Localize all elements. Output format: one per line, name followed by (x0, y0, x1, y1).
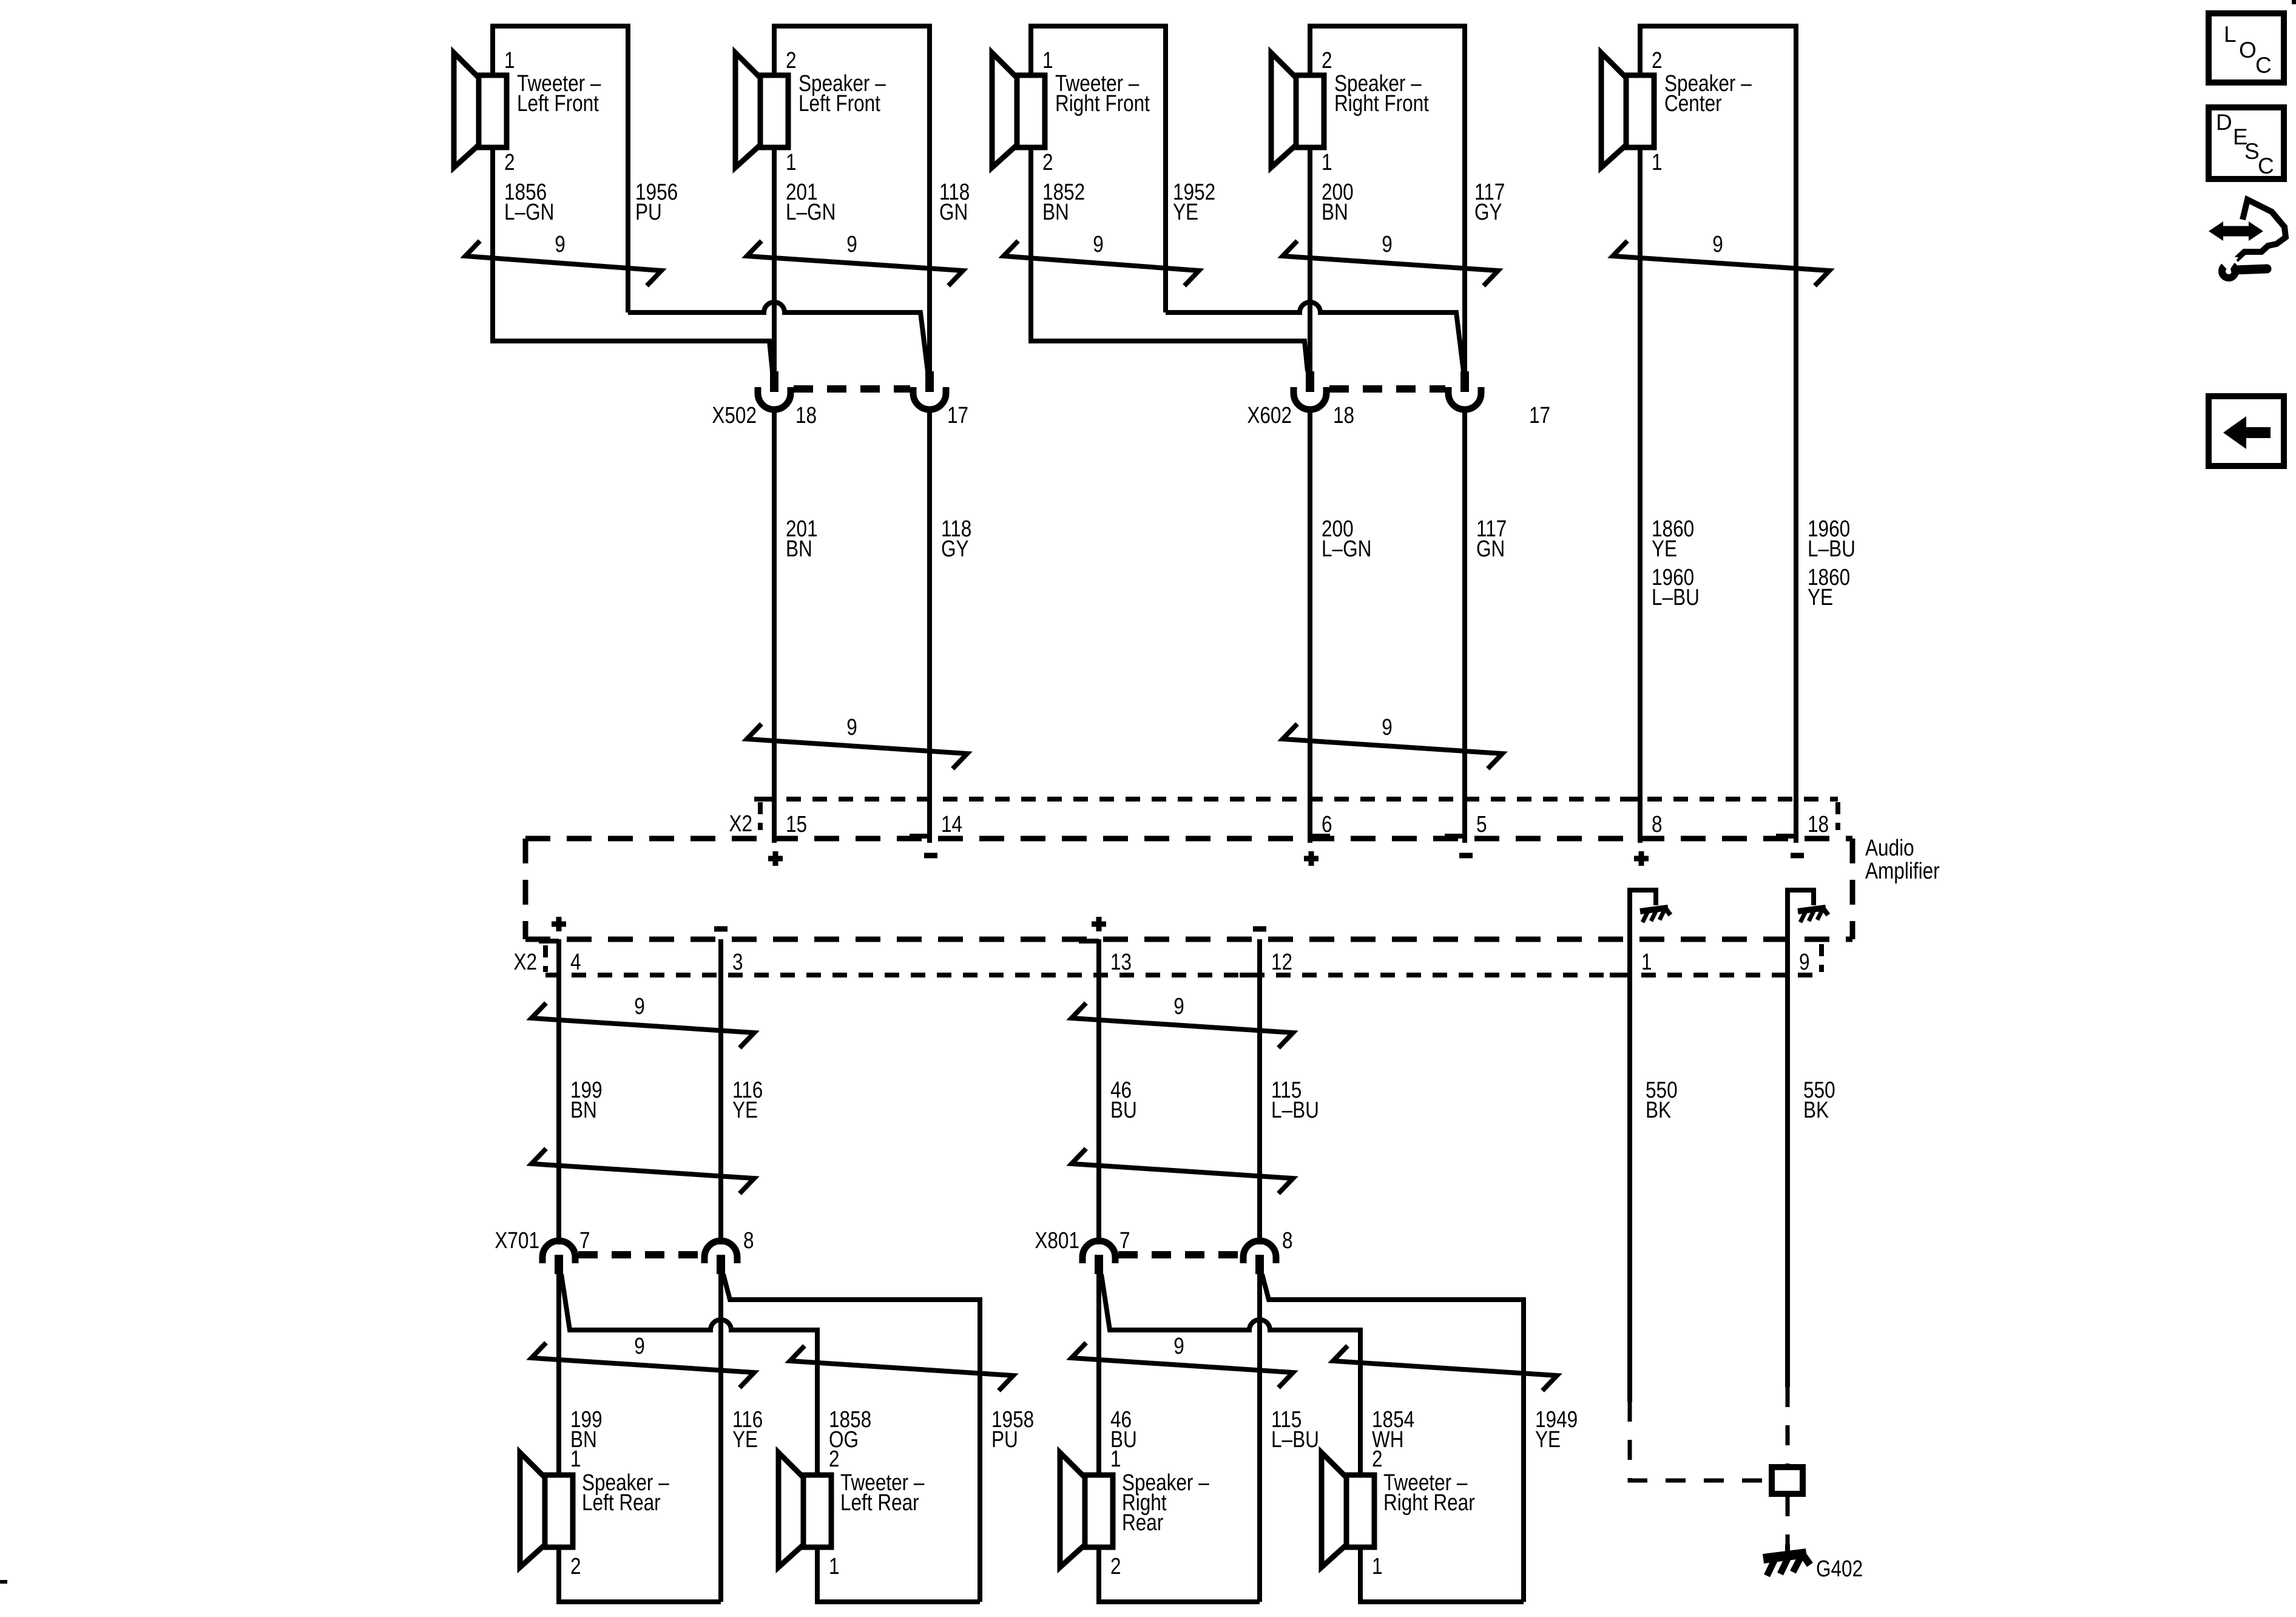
plus sign amp input 15 (768, 851, 783, 866)
svg-text:X602: X602 (1247, 402, 1292, 428)
svg-text:9: 9 (634, 993, 645, 1019)
svg-text:7: 7 (1119, 1227, 1130, 1253)
svg-text:12: 12 (1271, 949, 1292, 974)
svg-text:1960L–BU: 1960L–BU (1808, 516, 1855, 561)
svg-text:Tweeter –Left Rear: Tweeter –Left Rear (840, 1470, 925, 1515)
svg-text:9: 9 (1173, 993, 1184, 1019)
connector X602 terminal 17 (1448, 371, 1481, 426)
tweeter RR symbol (1322, 1453, 1374, 1567)
tick X2 pin 12 (1240, 973, 1260, 977)
svg-text:9: 9 (1712, 231, 1723, 257)
connector X801 terminal 7 (1082, 1241, 1115, 1274)
dashed wire splice to ground G402 (1786, 1496, 1790, 1548)
label 201 L-GN (786, 179, 836, 224)
svg-text:117GY: 117GY (1474, 179, 1505, 224)
ground symbol G402 (1763, 1552, 1810, 1576)
label 1960 L-BU (left wire) (1652, 564, 1700, 610)
svg-text:18: 18 (1808, 811, 1829, 837)
tick X2 pin 5 (1445, 834, 1465, 839)
crossing marker 9 (199/116 pair below amp) (532, 1003, 754, 1048)
connector X701 terminal 7 (542, 1241, 575, 1274)
crossing marker 9 (46/115 bottom) (1072, 1343, 1293, 1388)
amp internal ground wire pin 9 (1788, 890, 1816, 939)
wire speaker-LF pin2 118 GN (up, across top, down right edge to X502-17) (774, 26, 930, 371)
speaker center symbol (1601, 53, 1654, 167)
svg-text:G402: G402 (1816, 1556, 1863, 1581)
svg-text:9: 9 (846, 231, 857, 257)
svg-text:1: 1 (829, 1553, 840, 1579)
svg-text:6: 6 (1322, 811, 1332, 837)
svg-text:1: 1 (1322, 149, 1332, 175)
svg-text:7: 7 (579, 1227, 590, 1253)
tick X2 pin 8 (1620, 797, 1640, 802)
svg-text:3: 3 (732, 949, 743, 974)
svg-text:14: 14 (941, 811, 962, 837)
svg-text:Tweeter –Right Front: Tweeter –Right Front (1055, 70, 1150, 116)
svg-text:8: 8 (1282, 1227, 1293, 1253)
ground G402 connection stub (1785, 1544, 1790, 1557)
svg-text:15: 15 (786, 811, 807, 837)
wire 116 YE X701-8 down (speaker LR right edge) (718, 1273, 723, 1602)
wire tweeter RR pin1 to box bottom (1360, 1547, 1524, 1602)
svg-text:2: 2 (570, 1553, 581, 1579)
connector X801 body dashed line (1118, 1251, 1240, 1258)
connector X502 body dashed line (794, 385, 910, 393)
svg-text:Tweeter –Right Rear: Tweeter –Right Rear (1383, 1470, 1475, 1515)
crossing marker 9 (speaker RF pair) (1283, 241, 1498, 286)
label 1958 PU (991, 1406, 1034, 1452)
tweeter LF symbol (454, 53, 507, 167)
wire speaker-RF pin2 117 GY (up, across top, down right edge to X602-17) (1310, 26, 1465, 371)
label 115 L-BU (bottom) (1271, 1406, 1319, 1452)
wire tweeter LR pin1 to box bottom (817, 1547, 980, 1602)
wire 1856 L-GN from tweeter LF pin2 down and right to X502-18 (493, 147, 772, 371)
tick X2 pin 1 (1610, 973, 1630, 977)
speaker LF symbol (735, 53, 788, 167)
connector X2 lower right terminator (1819, 944, 1824, 972)
label 1854 WH (1372, 1406, 1414, 1452)
tick X2 pin 18 (1776, 834, 1796, 839)
label 550 BK (left) (1646, 1077, 1678, 1122)
svg-text:9: 9 (634, 1333, 645, 1359)
svg-text:2: 2 (504, 149, 515, 175)
label Audio Amplifier (1865, 835, 1940, 883)
connector X602 body dashed line (1329, 385, 1445, 393)
svg-text:1: 1 (504, 47, 515, 73)
label 117 GN (mid) (1476, 516, 1507, 561)
svg-text:D: D (2216, 110, 2232, 135)
svg-text:1: 1 (1641, 949, 1652, 974)
connector X602 terminal 18 (1294, 371, 1326, 426)
page edge mark (0, 1580, 7, 1584)
crossing marker (1858/1958 bottom) (790, 1346, 1013, 1391)
svg-text:X2: X2 (513, 949, 537, 974)
wire speaker LR pin2 to box bottom (559, 1547, 721, 1602)
svg-text:L: L (2224, 22, 2237, 47)
label Speaker - Left Rear (582, 1470, 669, 1515)
wire tweeter-RF pin1 1952 YE (up, across top, down right edge) (1031, 26, 1166, 312)
plus sign amp output 13 (1092, 917, 1106, 931)
crossing marker 9 (speaker center pair) (1613, 241, 1829, 286)
wire 116 YE amp X2-3 to X701-8 (718, 939, 723, 1244)
speaker RR symbol (1060, 1453, 1113, 1567)
crossing marker 9 (tweeter RF pair) (1004, 241, 1199, 286)
wire 1860 YE from speaker center pin1 down to amp X2-8 (1638, 147, 1643, 843)
label 199 BN (mid) (570, 1077, 603, 1122)
crossing marker 9 (speaker LF pair) (747, 241, 963, 286)
minus sign amp input 5 (1459, 853, 1473, 859)
tick X2 pin 6 (1310, 834, 1330, 839)
svg-text:9: 9 (1382, 714, 1393, 740)
svg-text:1: 1 (1372, 1553, 1383, 1579)
svg-text:Speaker –Left Rear: Speaker –Left Rear (582, 1470, 669, 1515)
label 116 YE (bottom) (732, 1406, 763, 1452)
plus sign amp output 4 (552, 917, 566, 931)
svg-text:2: 2 (1322, 47, 1332, 73)
crossing marker (1854/1949 bottom) (1333, 1346, 1557, 1391)
svg-text:118GN: 118GN (939, 179, 970, 224)
connector X2 lower dashed line (545, 973, 1822, 977)
label 200 L-GN (mid) (1322, 516, 1371, 561)
wire 201 L-GN from speaker LF pin1 down to X502-18 (772, 147, 777, 371)
label 1858 OG (829, 1406, 871, 1452)
svg-text:9: 9 (1799, 949, 1810, 974)
label 1960 L-BU (right wire) (1808, 516, 1855, 561)
svg-text:2: 2 (1652, 47, 1663, 73)
svg-text:O: O (2239, 38, 2257, 62)
svg-text:X502: X502 (712, 402, 757, 428)
wire 200 BN from speaker RF pin1 down to X602-18 (1308, 147, 1312, 371)
label Tweeter - Right Front (1055, 70, 1150, 116)
wire 550 BK amp X2-1 down (1627, 939, 1632, 1402)
svg-text:Speaker –Left Front: Speaker –Left Front (799, 70, 886, 116)
plus sign amp input 8 (1634, 851, 1649, 866)
svg-text:118GY: 118GY (941, 516, 971, 561)
label 1860 YE (right wire) (1808, 564, 1850, 610)
crossing marker 9 (200/117 pair above amp) (1283, 724, 1502, 769)
tick X2 pin 4 (539, 939, 559, 944)
sidebar back-arrow box (2209, 396, 2284, 466)
wire speaker RR pin2 to box bottom (1099, 1547, 1260, 1602)
label 1856 L-GN (504, 179, 554, 224)
label Tweeter - Left Front (517, 70, 601, 116)
connector X502 terminal 17 (913, 371, 946, 426)
connector X701 body dashed line (578, 1251, 701, 1258)
svg-text:S: S (2244, 139, 2260, 164)
connector X701 terminal 8 (704, 1241, 737, 1274)
dashed continuation 550 BK left to splice (1630, 1402, 1769, 1480)
wire 117 GN X602-17 to amp X2-5 (1462, 425, 1467, 843)
tweeter LR symbol (778, 1453, 831, 1567)
svg-text:9: 9 (555, 231, 566, 257)
connector X2 upper dashed line (760, 797, 1838, 802)
svg-text:18: 18 (795, 402, 817, 428)
svg-text:2: 2 (786, 47, 797, 73)
svg-text:9: 9 (1093, 231, 1104, 257)
label 118 GY (mid) (941, 516, 971, 561)
ground symbol amp pin 9 (1798, 907, 1828, 922)
svg-text:C: C (2258, 154, 2274, 178)
svg-text:8: 8 (1652, 811, 1663, 837)
label 118 GN (939, 179, 970, 224)
dashed continuation 550 BK right to splice (1786, 1387, 1790, 1465)
audio amplifier U1 dashed outline (525, 839, 1852, 939)
label Speaker - Center (1664, 70, 1752, 116)
wire 115 L-BU X801-8 down (speaker RR right edge) (1257, 1273, 1262, 1602)
svg-text:1: 1 (1652, 149, 1663, 175)
minus sign amp input 14 (924, 853, 937, 859)
wire tweeter-LF pin1 1956 PU (up, across top, down right edge) (493, 26, 628, 312)
svg-text:5: 5 (1476, 811, 1487, 837)
tick X2 pin 14 (910, 834, 930, 839)
svg-text:18: 18 (1333, 402, 1354, 428)
minus sign amp input 18 (1791, 853, 1804, 859)
label 1956 PU (635, 179, 678, 224)
label 46 BU (bottom) (1110, 1406, 1137, 1452)
crossing marker 9 (46/115 pair below amp) (1072, 1003, 1293, 1048)
svg-text:X2: X2 (729, 811, 752, 836)
svg-text:Tweeter –Left Front: Tweeter –Left Front (517, 70, 601, 116)
wire 1956 PU horizontal to X502-17 with hop over 201 wire (628, 302, 928, 371)
plus sign amp input 6 (1304, 851, 1319, 866)
label Speaker - Right Front (1334, 70, 1429, 116)
svg-text:9: 9 (1173, 1333, 1184, 1359)
crossing marker (46/115 pair second) (1072, 1149, 1293, 1193)
crossing marker 9 (201/118 pair above amp) (747, 724, 967, 769)
wire 46 BU amp X2-13 to X801-7 (1096, 939, 1101, 1244)
svg-text:X801: X801 (1035, 1227, 1079, 1253)
connector X2 upper left terminator (758, 802, 763, 830)
svg-text:2: 2 (1042, 149, 1053, 175)
label Tweeter - Left Rear (840, 1470, 925, 1515)
svg-text:Speaker –Right Front: Speaker –Right Front (1334, 70, 1429, 116)
svg-text:13: 13 (1110, 949, 1132, 974)
wire speaker-center pin2 1960 L-BU (up, across top, down right edge to amp X2-18) (1640, 26, 1796, 843)
label Speaker - Right Rear (1122, 1470, 1209, 1535)
label 201 BN (mid) (786, 516, 818, 561)
label 550 BK (right) (1803, 1077, 1835, 1122)
amp internal ground wire pin 1 (1630, 890, 1658, 939)
wire 46 BU X801-7 to speaker RR pin1 (1096, 1273, 1101, 1475)
svg-text:17: 17 (947, 402, 968, 428)
label 115 L-BU (mid) (1271, 1077, 1319, 1122)
svg-text:8: 8 (743, 1227, 754, 1253)
svg-text:1960L–BU: 1960L–BU (1652, 564, 1700, 610)
tick X2 pin 13 (1079, 939, 1099, 944)
svg-text:9: 9 (1382, 231, 1393, 257)
label Speaker - Left Front (799, 70, 886, 116)
svg-text:9: 9 (846, 714, 857, 740)
svg-text:1856L–GN: 1856L–GN (504, 179, 554, 224)
svg-text:2: 2 (1110, 1553, 1121, 1579)
splice block (1772, 1467, 1803, 1494)
sidebar LOC box (2209, 13, 2284, 83)
connector X2 upper right terminator (1835, 802, 1840, 830)
svg-text:X701: X701 (495, 1227, 539, 1253)
wire 199 BN X701-7 to speaker LR pin1 (556, 1273, 561, 1475)
wire 201 BN X502-18 to amp X2-15 (772, 425, 777, 843)
minus sign amp output 3 (714, 927, 728, 932)
label 46 BU (mid) (1110, 1077, 1137, 1122)
tick X2 pin 15 (754, 797, 774, 802)
wire 200 L-GN X602-18 to amp X2-6 (1308, 425, 1312, 843)
wire 1852 BN from tweeter RF pin2 down and right to X602-18 (1031, 147, 1308, 371)
wire 199 BN amp X2-4 to X701-7 (556, 939, 561, 1244)
minus sign amp output 12 (1253, 927, 1266, 932)
label 1949 YE (1535, 1406, 1578, 1452)
svg-text:4: 4 (570, 949, 581, 974)
connector X801 terminal 8 (1243, 1241, 1276, 1274)
label 1860 YE (left wire) (1652, 516, 1694, 561)
connector X2 lower left terminator (543, 945, 548, 972)
sidebar DESC box (2209, 107, 2284, 179)
label Tweeter - Right Rear (1383, 1470, 1475, 1515)
label 199 BN (bottom) (570, 1406, 603, 1452)
page corner mark (2292, 0, 2296, 4)
tweeter RF symbol (992, 53, 1045, 167)
svg-text:1: 1 (1042, 47, 1053, 73)
svg-text:17: 17 (1529, 402, 1550, 428)
label 1852 BN (1042, 179, 1085, 224)
label 117 GY (1474, 179, 1505, 224)
label 116 YE (mid) (732, 1077, 763, 1122)
svg-text:1: 1 (786, 149, 797, 175)
wire 1858 OG branch X701-7 right and down to tweeter LR pin2 (hop over 116) (561, 1274, 817, 1475)
crossing marker 9 (199/116 bottom) (532, 1343, 754, 1388)
label 1952 YE (1173, 179, 1215, 224)
wire 1949 YE branch X801-8 right and down (tweeter RR right edge) (1262, 1274, 1524, 1602)
crossing marker 9 (tweeter LF pair) (465, 241, 661, 286)
speaker LR symbol (520, 1453, 573, 1567)
svg-text:C: C (2255, 53, 2272, 78)
label 200 BN (1322, 179, 1354, 224)
wire 1958 PU branch X701-8 right and down (tweeter LR right edge) (723, 1274, 980, 1602)
wire 550 BK amp X2-9 down (1785, 939, 1790, 1387)
svg-text:117GN: 117GN (1476, 516, 1507, 561)
ground symbol amp pin 1 (1640, 907, 1670, 922)
wire 1952 YE horizontal to X602-17 with hop over 200 wire (1166, 302, 1464, 371)
crossing marker (199/116 pair second) (532, 1149, 754, 1193)
sidebar service icon (arrow and wrench) (2209, 200, 2286, 278)
wire 118 GY X502-17 to amp X2-14 (927, 425, 932, 843)
connector X502 terminal 18 (758, 371, 791, 426)
wire 1854 WH branch X801-7 right and down to tweeter RR pin2 (hop over 115) (1101, 1274, 1360, 1475)
wire 115 L-BU amp X2-12 to X801-8 (1257, 939, 1262, 1244)
speaker RF symbol (1271, 53, 1324, 167)
